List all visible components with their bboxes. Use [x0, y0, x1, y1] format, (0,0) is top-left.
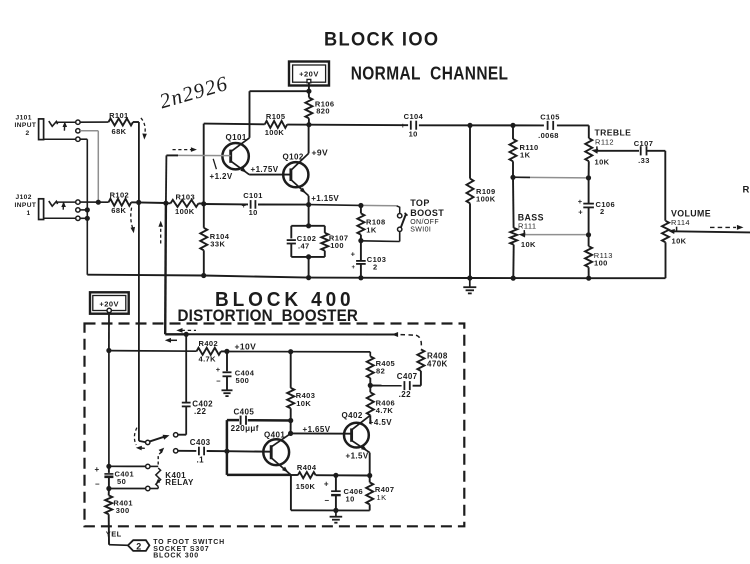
resistor R407 [366, 476, 394, 511]
svg-text:BOOST: BOOST [410, 208, 444, 218]
svg-text:C101: C101 [243, 191, 263, 200]
ground symbol block 100 [463, 278, 476, 293]
wire R403 to +1.65V node [290, 421, 292, 434]
switch SW101 blade [401, 213, 408, 228]
svg-text:C407: C407 [397, 372, 418, 381]
wire +20V left rail drop [108, 351, 110, 467]
switch K401 contact upper [174, 433, 178, 437]
svg-text:J101: J101 [16, 114, 32, 121]
terminal J101 tip [76, 120, 80, 124]
potentiometer R114 VOLUME [662, 209, 750, 279]
potentiometer R111 BASS [510, 177, 586, 278]
wire base-node lower link [227, 451, 291, 475]
ground symbol C404 [222, 390, 233, 396]
svg-text:C104: C104 [404, 112, 424, 121]
svg-text:220μμf: 220μμf [231, 424, 259, 433]
svg-text:470K: 470K [427, 359, 448, 368]
svg-text:100K: 100K [265, 128, 285, 137]
node C101 Q102 emitter junction [306, 202, 311, 207]
title DISTORTION BOOSTER [178, 306, 359, 325]
node supply junction [306, 89, 311, 94]
label +1.2V [210, 159, 233, 181]
svg-text:+: + [94, 465, 99, 474]
svg-text:SWI0I: SWI0I [410, 227, 431, 234]
svg-text:R103: R103 [176, 192, 196, 201]
svg-text:BLOCK 300: BLOCK 300 [153, 552, 199, 559]
resistor R408 [417, 349, 447, 371]
title BLOCK 400 [215, 288, 355, 311]
svg-text:82: 82 [376, 367, 385, 376]
svg-text:1: 1 [27, 210, 31, 217]
svg-text:+: + [351, 265, 355, 271]
node J102 tip junction [96, 200, 101, 205]
terminal relay upper [146, 464, 150, 468]
node R110 top [510, 123, 515, 128]
svg-text:Q101: Q101 [226, 133, 247, 142]
svg-text:+1.75V: +1.75V [251, 165, 279, 174]
node J102 sleeve junction [85, 216, 90, 221]
svg-text:10: 10 [409, 129, 418, 138]
node C401 bottom [106, 486, 111, 491]
wire to foot switch [109, 544, 128, 547]
svg-text:+1.65V: +1.65V [303, 425, 331, 434]
resistor R104 [200, 204, 229, 276]
resistor R403 [287, 352, 315, 421]
node +20V rail corner [106, 348, 111, 353]
svg-text:R404: R404 [297, 463, 317, 472]
title NORMAL CHANNEL [351, 63, 509, 84]
svg-text:−: − [262, 201, 267, 210]
node R113 ground [586, 276, 591, 281]
svg-text:1K: 1K [366, 225, 377, 234]
svg-text:TREBLE: TREBLE [595, 127, 632, 137]
dashed signal arrow at R101 [141, 118, 147, 140]
svg-text:+: + [578, 197, 583, 206]
svg-text:–: – [95, 479, 100, 488]
svg-text:R402: R402 [199, 339, 219, 348]
wire booster bottom rail [291, 509, 370, 511]
node R102 R103 junction [163, 201, 168, 206]
node bottom rail ground [333, 508, 338, 513]
node network ground [306, 275, 311, 280]
resistor R401 [105, 489, 133, 545]
wire +20V stem [308, 83, 310, 91]
svg-text:150K: 150K [296, 482, 316, 491]
capacitor C405 feedback loop [227, 407, 291, 451]
label +10V [235, 341, 257, 351]
node R405 bottom [368, 383, 373, 388]
svg-text:TOP: TOP [410, 198, 430, 208]
node R105 R106 junction [306, 122, 311, 127]
wire block100 ground bus [87, 275, 665, 279]
svg-text:YEL: YEL [106, 529, 122, 538]
svg-text:.47: .47 [298, 241, 310, 250]
svg-text:ON/OFF: ON/OFF [410, 219, 439, 226]
resistor R101 [80, 111, 139, 136]
svg-text:4.7K: 4.7K [199, 355, 217, 364]
dashed throw arc [134, 428, 144, 451]
svg-text:300: 300 [116, 506, 130, 515]
power +20V supply box (booster) [90, 292, 129, 313]
label foot switch note [153, 539, 225, 559]
svg-text:820: 820 [316, 107, 330, 116]
svg-text:DISTORTION BOOSTER: DISTORTION BOOSTER [178, 306, 359, 325]
svg-text:+: + [324, 480, 329, 489]
capacitor C401 [94, 465, 134, 489]
potentiometer R112 TREBLE [585, 127, 639, 166]
node R109 ground [467, 275, 472, 280]
svg-text:100: 100 [330, 241, 344, 250]
capacitor C402 [182, 334, 213, 434]
wire main top bus [204, 124, 589, 126]
svg-text:1K: 1K [520, 150, 531, 159]
wire node A row [204, 203, 309, 206]
terminal J102 sleeve [76, 216, 80, 220]
node C405 collector junction [288, 418, 293, 423]
label +4.5V [369, 418, 392, 427]
svg-text:C405: C405 [234, 407, 255, 416]
svg-text:NORMAL CHANNEL: NORMAL CHANNEL [351, 63, 509, 84]
dashed signal arrow below R102 [131, 208, 136, 234]
wire Q401 base [227, 450, 271, 453]
wire Q402 emitter drop [369, 453, 371, 476]
switch SW101 contacts [398, 214, 402, 232]
resistor R106 [305, 91, 334, 125]
wire treble bottom [588, 161, 590, 178]
transistor Q101 [222, 133, 249, 174]
svg-text:10: 10 [346, 495, 355, 504]
wire network to ground bus [308, 257, 310, 278]
wire J102 sleeve stub [80, 217, 87, 219]
wire J102 ring stub [80, 209, 87, 211]
wire network top rail [291, 225, 325, 227]
svg-text:+4.5V: +4.5V [369, 418, 392, 427]
svg-text:.22: .22 [194, 407, 206, 416]
svg-text:68K: 68K [111, 206, 126, 215]
svg-text:RI: RI [743, 185, 750, 196]
resistor R406 [367, 385, 395, 415]
mechanical link to relay [158, 448, 164, 465]
arrow into tap line (solid) [165, 338, 177, 343]
svg-text:−: − [421, 121, 426, 130]
svg-text:2: 2 [26, 130, 30, 137]
node +1.65V [288, 431, 293, 436]
node treble C106 junction [586, 175, 591, 180]
svg-text:100: 100 [594, 259, 608, 268]
node Q401 base [224, 449, 229, 454]
node network top [306, 223, 311, 228]
svg-text:C106: C106 [596, 200, 616, 209]
dashed arrow toward Q101 base [173, 147, 197, 152]
terminal J102 ring [76, 208, 80, 212]
title BLOCK 100 [324, 28, 439, 49]
node Q402 emitter junction [367, 473, 372, 478]
capacitor C101 [242, 191, 267, 217]
svg-text:INPUT: INPUT [15, 202, 37, 209]
svg-text:R111: R111 [518, 222, 536, 231]
resistor R113 [585, 235, 613, 278]
resistor R102 [109, 190, 167, 215]
svg-text:−: − [324, 496, 329, 505]
jack J102 (INPUT 1) [15, 194, 76, 219]
node R403 top [288, 349, 293, 354]
resistor R110 [510, 125, 539, 177]
resistor R405 [367, 352, 395, 386]
svg-text:2: 2 [373, 262, 378, 271]
capacitor C107 [634, 139, 654, 165]
svg-text:2: 2 [136, 541, 141, 551]
capacitor C106 [578, 178, 615, 235]
power +20V supply box [289, 62, 329, 86]
svg-text:100K: 100K [175, 207, 195, 216]
svg-text:RELAY: RELAY [165, 478, 194, 487]
svg-text:+1.5V: +1.5V [346, 451, 369, 460]
svg-text:+9V: +9V [312, 148, 329, 158]
svg-text:4.7K: 4.7K [376, 406, 394, 415]
label +1.75V [251, 165, 279, 174]
svg-text:Q102: Q102 [283, 152, 304, 161]
svg-text:50: 50 [117, 477, 126, 486]
svg-text:.0068: .0068 [538, 131, 559, 140]
jack J101 (INPUT 2) [15, 114, 76, 139]
node C401 top [106, 464, 111, 469]
svg-text:+1.15V: +1.15V [311, 194, 339, 203]
svg-text:R114: R114 [671, 218, 690, 227]
node R104 ground [201, 273, 206, 278]
resistor R109 [467, 125, 496, 278]
svg-text:10K: 10K [296, 399, 311, 408]
node feedback corner [184, 332, 189, 337]
wire +1.65V to Q402 base [291, 432, 352, 434]
wire C407 riser to R408 [420, 371, 422, 386]
wire +10V rail [227, 351, 370, 353]
terminal J102 tip [76, 200, 80, 204]
resistor R105 [265, 112, 288, 137]
arrow into tap line (dashed) [176, 328, 196, 333]
wire Q102 emitter drop [308, 196, 310, 205]
ground symbol booster [330, 510, 343, 522]
wire J101 sleeve drop [80, 139, 87, 275]
svg-text:−: − [216, 377, 221, 386]
svg-text:.1: .1 [197, 455, 205, 464]
wire Q102 collector riser [308, 125, 310, 154]
wire J101 ring drop [80, 131, 98, 202]
wire network bottom rail [291, 256, 325, 258]
svg-text:+: + [216, 365, 221, 374]
wire riser to node A [203, 124, 205, 204]
wire relay feed upper [109, 465, 146, 467]
svg-text:+20V: +20V [99, 299, 119, 308]
label +1.65V [303, 425, 331, 434]
svg-text:100K: 100K [476, 195, 496, 204]
wire C402 to upper contact [178, 434, 186, 436]
svg-text:C403: C403 [190, 438, 211, 447]
wire R101 output drop (to booster switch) [139, 122, 146, 442]
svg-text:C105: C105 [540, 112, 560, 121]
wire Q402 collector riser [369, 415, 371, 424]
resistor R404 [291, 463, 370, 491]
svg-text:J102: J102 [16, 194, 32, 201]
handwritten 2N2926 part number [157, 71, 231, 113]
transistor Q102 [283, 152, 309, 196]
svg-text:.33: .33 [638, 156, 650, 165]
capacitor C406 [324, 475, 363, 510]
wire Q101 base [166, 154, 230, 156]
switch K401 contact lower [174, 449, 178, 453]
wire J102 tip row [80, 201, 108, 203]
label TOP BOOST switch [410, 198, 444, 233]
node R109 top [467, 123, 472, 128]
wire relay feed lower [109, 488, 146, 490]
terminal +20V stem [107, 308, 111, 312]
svg-text:R112: R112 [595, 137, 614, 146]
label +1.15V [311, 194, 339, 203]
resistor R107 [321, 226, 348, 257]
svg-text:+: + [351, 250, 356, 259]
svg-text:+: + [578, 207, 583, 216]
svg-text:BLOCK IOO: BLOCK IOO [324, 28, 439, 49]
svg-text:R105: R105 [266, 112, 286, 121]
svg-text:Q401: Q401 [264, 430, 285, 439]
wire +1.15V to switch [309, 205, 400, 214]
svg-text:10: 10 [249, 208, 258, 217]
node R101 drop junction [136, 200, 141, 205]
label YEL [106, 529, 122, 538]
resistor R103 [166, 192, 203, 216]
terminal J101 sleeve [76, 137, 80, 141]
capacitor C102 [287, 226, 317, 257]
svg-text:10K: 10K [672, 236, 687, 245]
wire R110 to treble node [513, 176, 586, 179]
resistor R108 [357, 206, 385, 241]
node network bottom [306, 254, 311, 259]
svg-text:500: 500 [236, 376, 250, 385]
relay K401 coil [150, 466, 194, 488]
svg-text:.22: .22 [399, 390, 411, 399]
terminal J101 ring [76, 129, 80, 133]
capacitor C404 [216, 352, 255, 390]
node C103 ground [358, 275, 363, 280]
node R111 ground [511, 276, 516, 281]
capacitor C104 [401, 112, 426, 138]
switch pivot [146, 440, 150, 444]
svg-text:C107: C107 [634, 139, 654, 148]
dashed return arrow to tap node [158, 221, 163, 244]
wire R108 bottom to switch [361, 231, 400, 241]
label next stage RI [743, 185, 750, 196]
dashed enclosure block 400 [85, 324, 465, 527]
switch relay blade [150, 435, 170, 442]
wire Q101 collector riser [249, 91, 251, 138]
svg-text:10K: 10K [595, 157, 610, 166]
transistor Q402 [342, 411, 371, 452]
dashed output arrow [710, 225, 744, 230]
capacitor C407 [370, 372, 421, 399]
resistor R402 [109, 339, 227, 363]
wire booster tap drop (to block 400) [165, 155, 186, 334]
label +9V [312, 148, 329, 158]
wire C107 to volume [647, 151, 666, 221]
wire feedback return line [186, 334, 421, 348]
svg-text:10K: 10K [521, 240, 536, 249]
node A junction [201, 201, 206, 206]
svg-text:+1.2V: +1.2V [210, 172, 233, 181]
svg-text:+10V: +10V [235, 341, 257, 351]
svg-text:1K: 1K [377, 493, 387, 502]
svg-text:R101: R101 [109, 111, 129, 120]
node R108 bottom [358, 238, 363, 243]
svg-text:33K: 33K [210, 239, 225, 248]
svg-text:+: + [242, 201, 247, 210]
node J102 ring junction [85, 207, 90, 212]
svg-text:R102: R102 [110, 190, 130, 199]
wire Q102 emitter network drop [308, 205, 310, 226]
svg-text:+20V: +20V [299, 69, 319, 78]
terminal relay lower [146, 486, 150, 490]
transistor Q401 [263, 430, 291, 475]
svg-text:Q402: Q402 [342, 411, 363, 420]
wire top supply to collector riser [250, 90, 309, 92]
svg-text:INPUT: INPUT [15, 122, 37, 129]
svg-text:68K: 68K [112, 127, 127, 136]
node C106 bottom junction [586, 232, 591, 237]
wire +20V drop [108, 313, 110, 351]
node R108 top [358, 203, 363, 208]
wire Q101 emitter to Q102 base [249, 174, 291, 176]
wire Q401 emitter drop [290, 475, 292, 510]
label +1.5V [346, 451, 369, 460]
capacitor C403 [178, 438, 227, 464]
dashed arrow on feedback line [392, 332, 399, 337]
svg-text:2: 2 [600, 207, 605, 216]
svg-text:+: + [401, 121, 406, 130]
wire treble drop [588, 125, 590, 138]
node R404 C406 junction [333, 473, 338, 478]
capacitor C103 [351, 241, 387, 278]
node R402 output [224, 349, 229, 354]
capacitor C105 [538, 112, 560, 140]
connector hexagon 2 [128, 540, 149, 551]
node R110 bottom [510, 175, 515, 180]
